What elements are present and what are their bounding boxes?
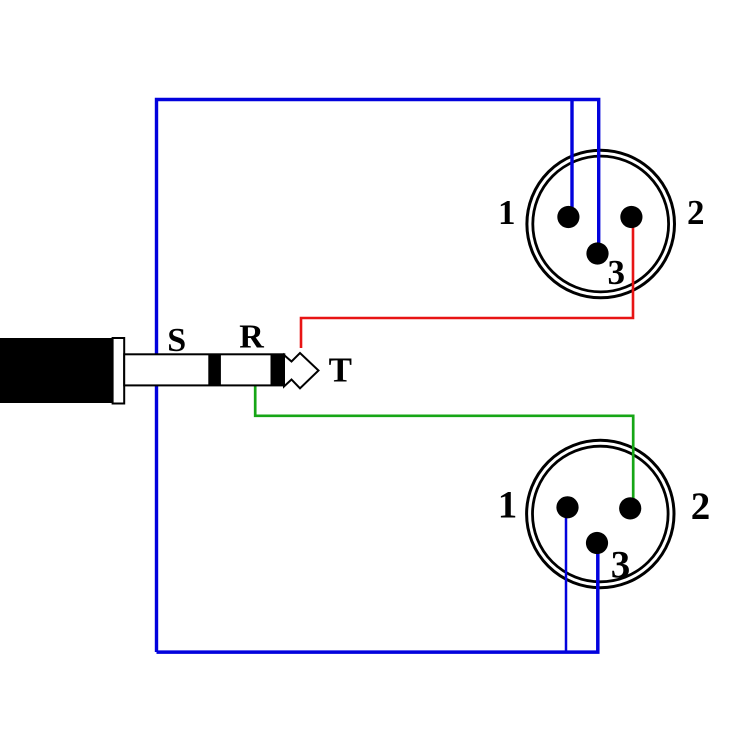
svg-text:1: 1 xyxy=(498,484,518,527)
svg-text:3: 3 xyxy=(608,253,626,292)
svg-text:3: 3 xyxy=(611,544,631,587)
svg-text:R: R xyxy=(239,319,264,356)
svg-text:T: T xyxy=(329,351,352,390)
svg-text:S: S xyxy=(167,322,186,359)
svg-text:1: 1 xyxy=(498,193,516,232)
svg-text:2: 2 xyxy=(687,193,705,232)
svg-text:2: 2 xyxy=(691,485,711,528)
